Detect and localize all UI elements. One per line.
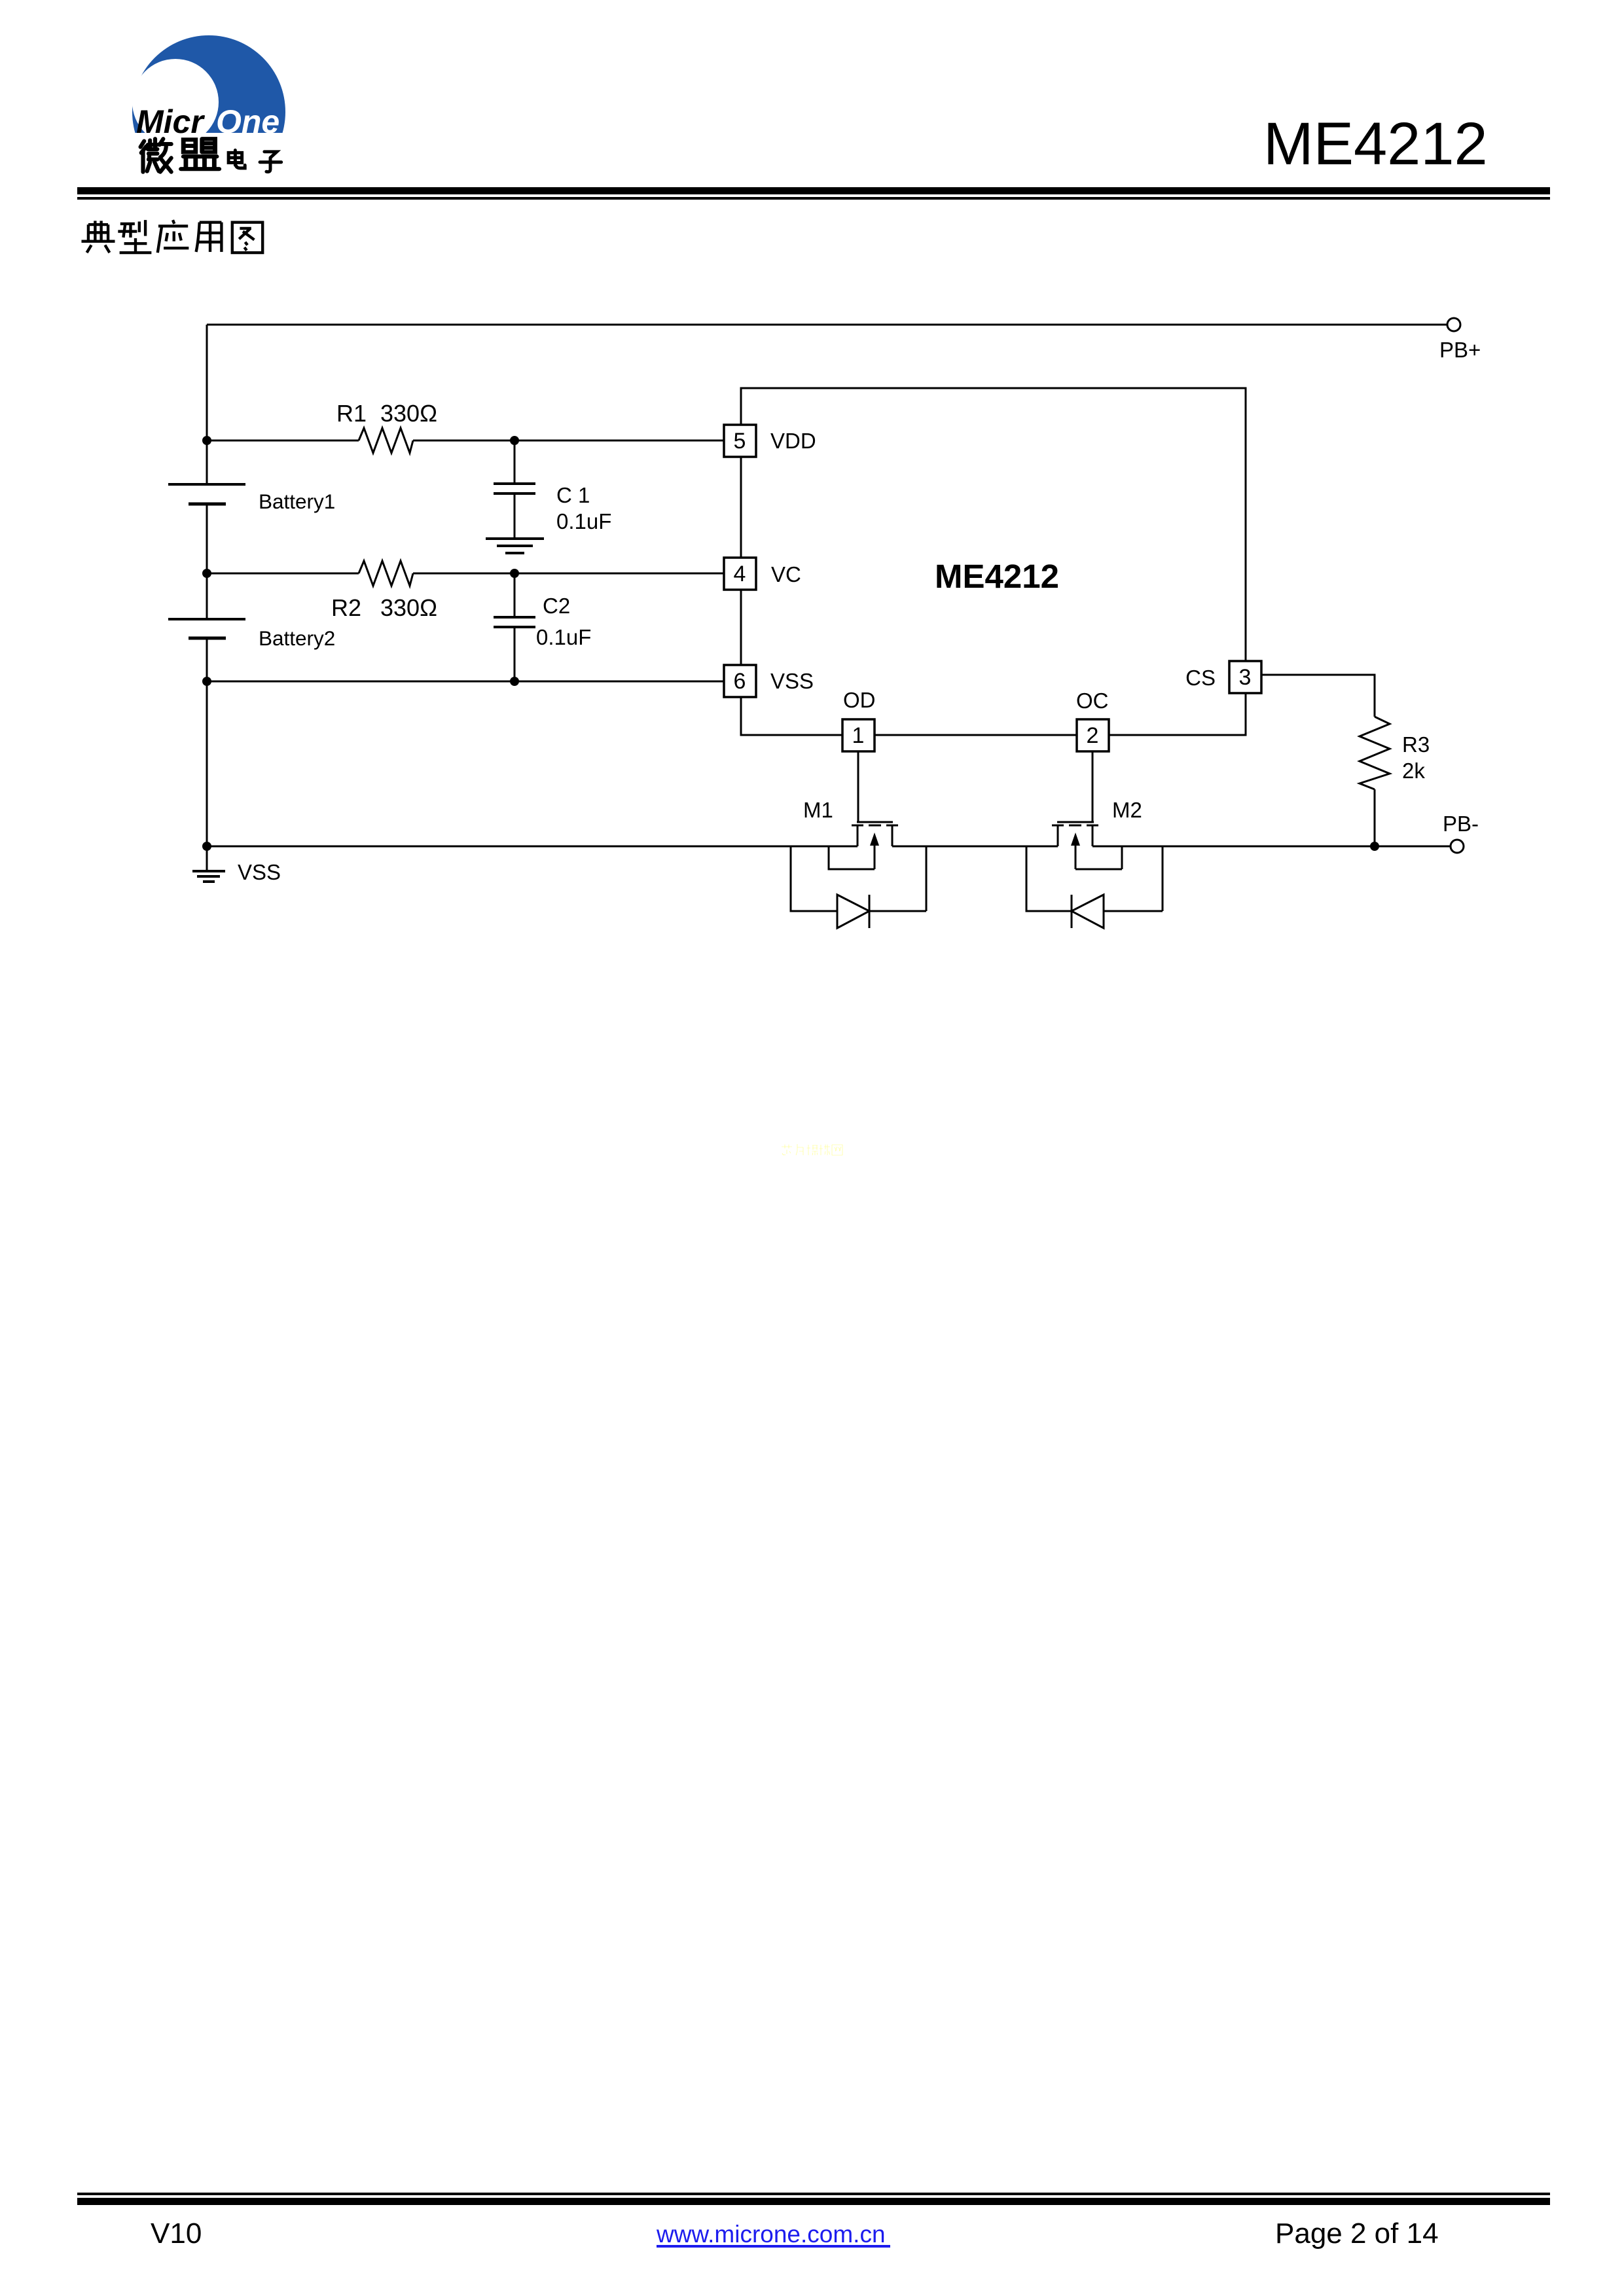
ground VSS bottom-left	[206, 846, 208, 871]
wire left vertical battery stack	[206, 325, 208, 846]
svg-text:Micr: Micr	[136, 103, 205, 140]
resistor R1	[359, 428, 413, 453]
node C2 top	[510, 569, 519, 578]
wire VDD row left	[207, 440, 359, 442]
wire VSS row	[207, 681, 724, 683]
svg-text:OC: OC	[1076, 689, 1109, 713]
svg-text:PB-: PB-	[1443, 812, 1479, 836]
svg-text:Battery2: Battery2	[259, 626, 335, 650]
svg-text:www.microne.com.cn: www.microne.com.cn	[656, 2221, 886, 2248]
ground below C1	[486, 539, 544, 553]
pin 2 box	[1077, 719, 1109, 751]
svg-text:Page 2 of 14: Page 2 of 14	[1275, 2217, 1439, 2250]
svg-text:M2: M2	[1112, 798, 1142, 822]
svg-text:2k: 2k	[1402, 759, 1425, 783]
svg-text:330Ω: 330Ω	[380, 594, 437, 621]
svg-text:M1: M1	[803, 798, 833, 822]
svg-text:PB+: PB+	[1439, 338, 1481, 362]
wire PB+ top rail	[207, 324, 1447, 326]
pin 3 box	[1229, 661, 1261, 693]
svg-text:V10: V10	[151, 2217, 202, 2250]
body diode D2	[1026, 846, 1163, 928]
svg-text:R1: R1	[336, 400, 367, 427]
svg-text:ME4212: ME4212	[935, 558, 1059, 595]
terminal PB-	[1451, 840, 1464, 853]
wire CS to R3	[1261, 675, 1375, 717]
svg-text:CS: CS	[1185, 666, 1216, 690]
wire R3 to rail	[1374, 789, 1376, 846]
pin boxes	[724, 425, 1261, 751]
pin numbers and labels	[238, 338, 1481, 884]
svg-text:VSS: VSS	[770, 669, 814, 693]
node C2 bottom	[510, 677, 519, 686]
pin 6 box	[724, 665, 756, 697]
svg-text:2: 2	[1087, 723, 1099, 748]
svg-text:ME4212: ME4212	[1263, 111, 1488, 177]
node R3 bottom	[1370, 842, 1379, 851]
node VC-left	[202, 569, 211, 578]
svg-text:0.1uF: 0.1uF	[556, 509, 611, 533]
node C1 top	[510, 436, 519, 445]
transistor M1	[829, 751, 898, 869]
logo MicrOne dome	[132, 35, 285, 188]
node VDD-left	[202, 436, 211, 445]
wire PB- bottom rail	[207, 846, 1451, 848]
svg-text:0.1uF: 0.1uF	[536, 625, 591, 649]
capacitor C1	[514, 440, 516, 482]
node VSS-left	[202, 677, 211, 686]
pin 5 box	[724, 425, 756, 457]
IC ME4212 box	[741, 388, 1246, 735]
svg-text:One: One	[216, 103, 280, 140]
node PB- left	[202, 842, 211, 851]
svg-text:VSS: VSS	[238, 860, 281, 884]
svg-text:VC: VC	[771, 562, 801, 586]
wire VC row left	[207, 573, 359, 575]
svg-text:C2: C2	[543, 594, 570, 618]
pin 4 box	[724, 558, 756, 590]
battery B1 plates	[168, 483, 245, 486]
logo text 微盟 (drawn strokes)	[141, 139, 219, 171]
terminal PB+	[1447, 318, 1460, 331]
svg-text:6: 6	[734, 669, 746, 694]
body diode D1	[791, 846, 926, 928]
transistor M2	[1052, 751, 1122, 869]
svg-text:330Ω: 330Ω	[380, 400, 437, 427]
svg-text:R2: R2	[331, 594, 361, 621]
svg-text:3: 3	[1239, 665, 1252, 690]
battery B2 plates	[168, 618, 245, 620]
svg-text:R3: R3	[1402, 732, 1430, 757]
capacitor C2	[514, 573, 516, 616]
svg-text:1: 1	[852, 723, 865, 748]
svg-text:5: 5	[734, 429, 746, 454]
resistor R2	[359, 561, 413, 586]
wire VC row right	[413, 573, 724, 575]
header rule thick	[77, 187, 1550, 194]
footer rule thin	[77, 2193, 1550, 2195]
svg-text:4: 4	[734, 562, 746, 586]
resistor R3	[1360, 717, 1390, 789]
svg-text:OD: OD	[843, 688, 876, 712]
pin 1 box	[842, 719, 875, 751]
watermark 芯片模块网	[782, 1144, 842, 1155]
logo text MicrOne	[136, 103, 280, 140]
logo text 电子 (drawn strokes)	[228, 151, 281, 172]
svg-text:VDD: VDD	[770, 429, 816, 453]
junction dots	[202, 436, 1379, 851]
wire VDD row right	[413, 440, 724, 442]
svg-text:C 1: C 1	[556, 483, 590, 507]
header rule thin	[77, 197, 1550, 200]
footer rule thick	[77, 2198, 1550, 2205]
svg-text:Battery1: Battery1	[259, 490, 335, 513]
